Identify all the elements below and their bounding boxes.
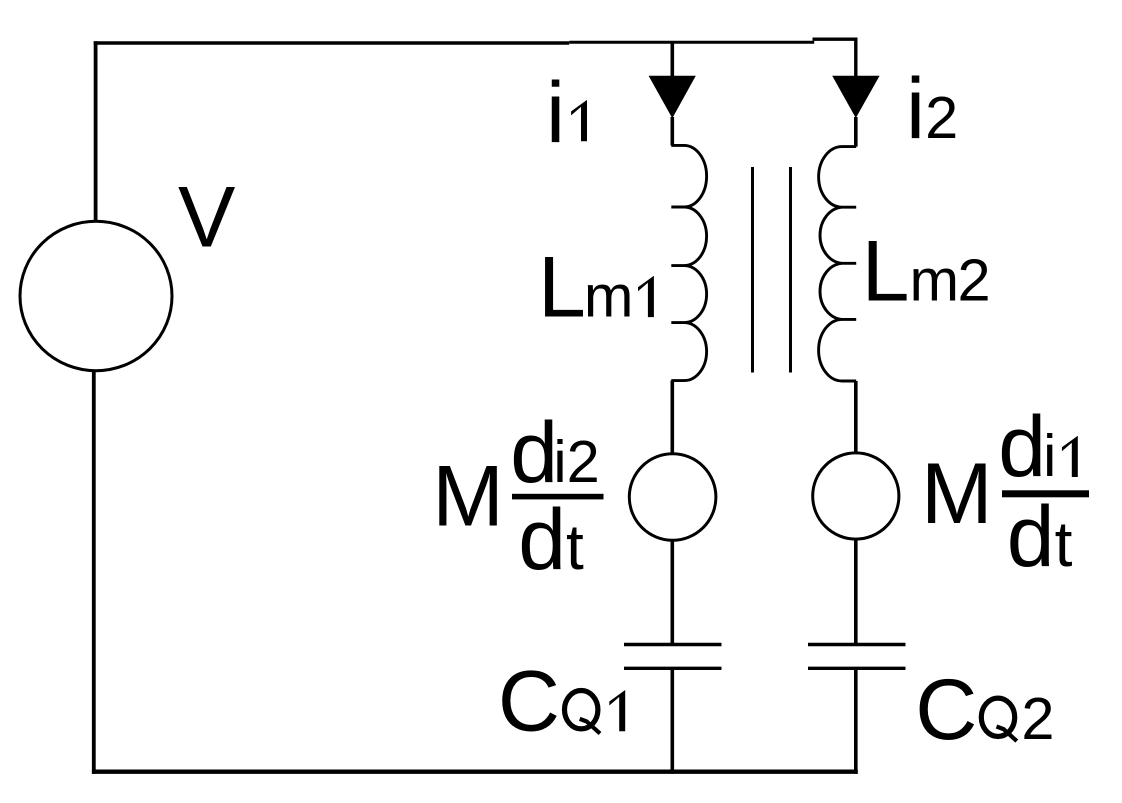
dependent source circle (M di1/dt)	[813, 453, 899, 539]
svg-text:V: V	[178, 170, 235, 266]
arrow i1 (filled triangle pointing down)	[649, 76, 696, 119]
svg-text:C: C	[498, 654, 560, 750]
wire: branch 1 inductor to dependent source	[670, 381, 674, 456]
wire: branch 1 capacitor to bottom	[670, 668, 674, 774]
dependent source circle (M di2/dt)	[629, 454, 716, 541]
wire: branch 2 inductor to dependent source	[854, 381, 858, 454]
wire: left vertical (top half, source V top lead)	[94, 41, 98, 221]
label CQ2 subscript Q (custom glyph: ring)	[981, 698, 1014, 736]
inductor Lm1 (4 arcs bulging right, with cusp ticks to the wire)	[671, 145, 706, 380]
wire: bottom horizontal	[92, 770, 858, 774]
svg-text:i: i	[546, 65, 565, 161]
wire: top-right jog segment	[813, 38, 858, 41]
wire: top horizontal (middle segment)	[569, 41, 814, 44]
wire: left vertical (bottom half, source V bottom lead)	[92, 371, 96, 774]
svg-text:M: M	[921, 446, 993, 542]
transformer core line (left)	[751, 167, 754, 373]
svg-text:2: 2	[1021, 685, 1054, 752]
inductor Lm2 (4 arcs bulging left, with cusp ticks to the wire)	[819, 147, 857, 381]
wire: branch 2 source to capacitor	[854, 539, 858, 644]
capacitor CQ1 bottom plate	[624, 667, 722, 670]
wire: branch 1 source to capacitor	[670, 540, 674, 644]
wire: branch 1 top stub	[670, 42, 674, 77]
label i1 subscript 1 (custom glyph)	[571, 100, 587, 141]
wire: branch 2 capacitor to bottom	[854, 668, 858, 774]
label CQ1 subscript Q (custom glyph: ring)	[565, 691, 598, 729]
voltage source V circle	[20, 221, 172, 370]
label CQ1 subscript 1 (custom glyph)	[609, 690, 625, 731]
svg-text:M: M	[432, 449, 504, 545]
svg-text:C: C	[915, 662, 977, 758]
label CQ2 subscript Q tail	[997, 727, 1017, 742]
capacitor CQ2 bottom plate	[808, 667, 906, 670]
arrow i2 (filled triangle pointing down)	[832, 76, 879, 118]
capacitor CQ1 top plate	[624, 643, 722, 646]
wire: top-right corner vertical down to arrow i2	[854, 38, 857, 78]
wire: top horizontal (left segment)	[94, 41, 570, 45]
label CQ1 subscript Q tail	[580, 719, 600, 734]
capacitor CQ2 top plate	[808, 643, 906, 646]
fraction bar (left)	[512, 494, 604, 500]
wire: branch 1 between arrow and inductor	[670, 117, 674, 145]
transformer core line (right)	[789, 167, 792, 373]
label Lm1 subscript 1 (custom glyph)	[638, 276, 654, 317]
wire: branch 2 between arrow and inductor	[854, 117, 858, 147]
fraction numerator subscript 1 (custom glyph)	[1062, 436, 1078, 477]
fraction bar (right)	[1002, 490, 1089, 497]
